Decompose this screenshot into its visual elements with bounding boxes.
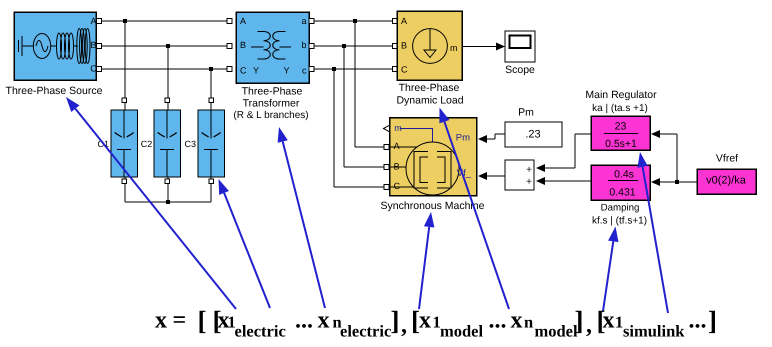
svg-text:Pm: Pm bbox=[518, 107, 534, 119]
svg-text:v0(2)/ka: v0(2)/ka bbox=[706, 175, 747, 187]
svg-text:Y: Y bbox=[283, 66, 289, 76]
svg-text:B: B bbox=[90, 40, 96, 50]
svg-text:x: x bbox=[603, 308, 615, 334]
svg-text:]: ] bbox=[575, 306, 584, 336]
svg-text:model: model bbox=[535, 322, 578, 341]
svg-text:Pm: Pm bbox=[456, 133, 470, 144]
svg-text:0.5s+1: 0.5s+1 bbox=[605, 138, 637, 150]
svg-text:(R & L branches): (R & L branches) bbox=[233, 110, 308, 121]
svg-text:[: [ bbox=[198, 306, 207, 336]
svg-text:C: C bbox=[394, 181, 401, 191]
svg-text:c: c bbox=[302, 66, 307, 76]
svg-text:x: x bbox=[511, 308, 523, 334]
svg-text:C3: C3 bbox=[184, 139, 196, 149]
svg-text:.23: .23 bbox=[525, 129, 540, 141]
svg-text:...: ... bbox=[689, 308, 707, 334]
svg-text:Three-Phase: Three-Phase bbox=[242, 86, 303, 98]
svg-text:Scope: Scope bbox=[505, 64, 535, 76]
svg-text:,: , bbox=[401, 313, 407, 339]
svg-text:model: model bbox=[440, 322, 483, 341]
svg-text:x: x bbox=[419, 308, 431, 334]
svg-text:B: B bbox=[401, 41, 407, 51]
svg-text:x: x bbox=[318, 308, 330, 334]
svg-text:x: x bbox=[155, 308, 167, 334]
svg-text:0.4s: 0.4s bbox=[614, 169, 634, 181]
svg-text:]: ] bbox=[391, 306, 400, 336]
svg-text:+: + bbox=[526, 177, 532, 188]
svg-text:=: = bbox=[173, 308, 187, 334]
svg-text:m: m bbox=[450, 43, 458, 53]
svg-text:B: B bbox=[394, 161, 400, 171]
svg-text:,: , bbox=[586, 313, 592, 339]
svg-text:A: A bbox=[401, 16, 407, 26]
svg-text:...: ... bbox=[295, 308, 313, 334]
svg-text:n: n bbox=[524, 313, 533, 332]
svg-text:C: C bbox=[90, 64, 97, 74]
svg-text:]: ] bbox=[708, 306, 717, 336]
svg-text:Dynamic Load: Dynamic Load bbox=[396, 95, 463, 107]
svg-text:electric: electric bbox=[340, 322, 391, 341]
svg-text:Three-Phase: Three-Phase bbox=[399, 82, 460, 94]
svg-text:Synchronous Machine: Synchronous Machine bbox=[381, 200, 485, 212]
svg-text:+: + bbox=[526, 165, 532, 176]
svg-text:A: A bbox=[240, 16, 246, 26]
svg-text:electric: electric bbox=[235, 322, 286, 341]
svg-text:C: C bbox=[240, 66, 247, 76]
svg-text:Main Regulator: Main Regulator bbox=[585, 89, 657, 101]
svg-text:A: A bbox=[90, 16, 96, 26]
svg-text:...: ... bbox=[489, 308, 507, 334]
svg-text:kf.s | (tf.s+1): kf.s | (tf.s+1) bbox=[592, 216, 647, 227]
svg-text:Vfref: Vfref bbox=[716, 153, 738, 165]
svg-text:Transformer: Transformer bbox=[243, 98, 300, 110]
svg-text:m: m bbox=[394, 123, 402, 133]
svg-text:C2: C2 bbox=[141, 139, 153, 149]
svg-text:Three-Phase Source: Three-Phase Source bbox=[6, 85, 103, 97]
svg-text:a: a bbox=[301, 16, 306, 26]
svg-text:simulink: simulink bbox=[623, 322, 685, 341]
svg-text:A: A bbox=[394, 141, 400, 151]
svg-text:b: b bbox=[301, 40, 306, 50]
svg-text:B: B bbox=[240, 40, 246, 50]
svg-text:ka | (ta.s +1): ka | (ta.s +1) bbox=[592, 103, 648, 114]
svg-text:Y: Y bbox=[253, 66, 259, 76]
svg-text:0.431: 0.431 bbox=[609, 187, 635, 199]
svg-text:C: C bbox=[401, 65, 408, 75]
svg-text:1: 1 bbox=[615, 313, 623, 332]
svg-text:Damping: Damping bbox=[601, 203, 640, 214]
svg-text:23: 23 bbox=[615, 121, 627, 133]
